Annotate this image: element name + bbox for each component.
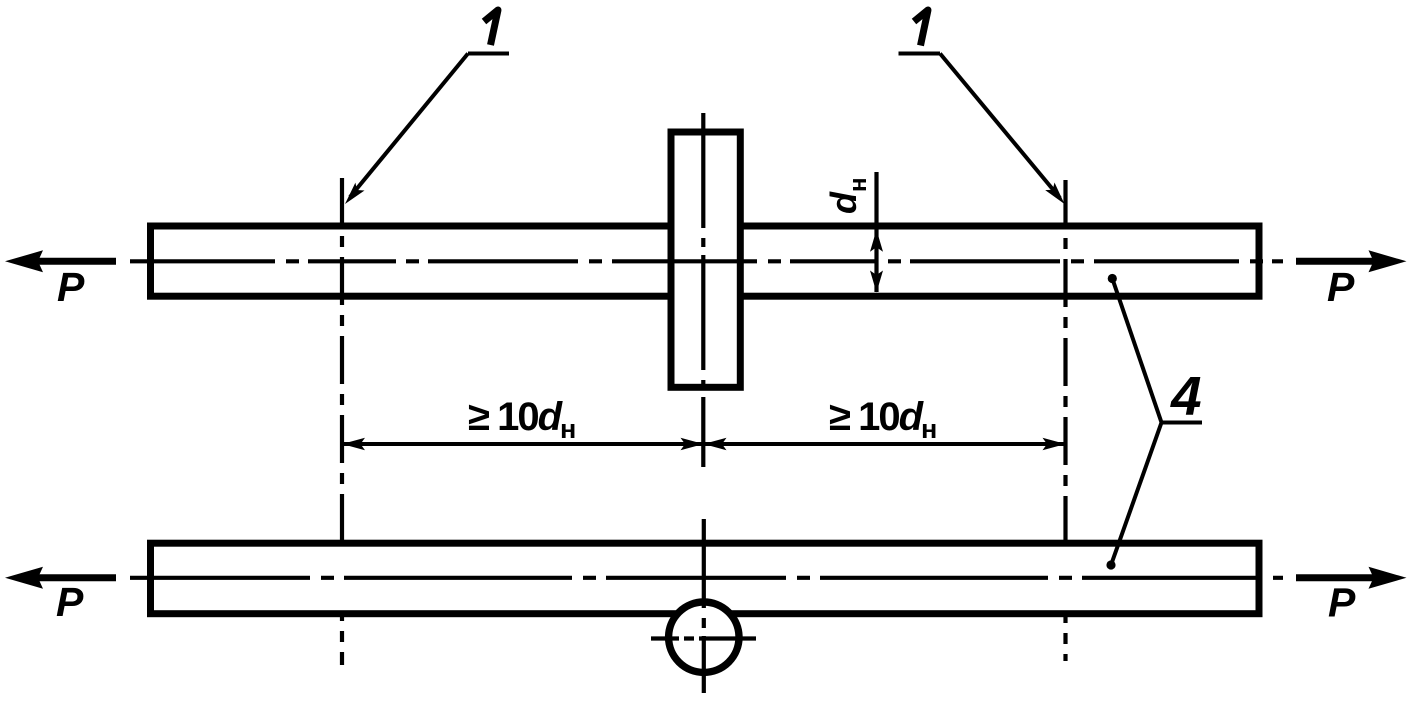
- dimension arrowhead (right end of right span): [1043, 438, 1066, 451]
- leader arrowhead of label 1 (left): [345, 183, 365, 204]
- top bar (specimen rod, side view): [151, 226, 1260, 296]
- bottom bar (specimen rod, plan view): [151, 543, 1260, 614]
- right section line (vertical dash-dot): [1063, 180, 1067, 661]
- leader arrowhead of label 1 (right): [1045, 183, 1064, 205]
- wire: right force arrow shaft (top): [1296, 258, 1375, 265]
- center axis of transverse plate (vertical dash-dot, top view): [701, 113, 705, 467]
- svg-text:P: P: [56, 579, 84, 625]
- dimension arrowhead (left end of right span): [704, 438, 727, 451]
- vertical centerline through circle: [702, 519, 706, 693]
- svg-text:P: P: [1328, 580, 1356, 626]
- leader line of label 4: lower leg: [1111, 423, 1162, 566]
- label 1 (right section mark): [914, 10, 928, 46]
- leader line of label 1 (right): diagonal: [940, 54, 1060, 199]
- label 1 (left section mark): [484, 10, 498, 45]
- centerline of top bar (horizontal dash-dot): [130, 259, 1283, 263]
- right force arrowhead (bottom): [1369, 567, 1407, 589]
- leader line of label 1 (right): underline: [899, 52, 941, 56]
- dimension line >=10d_n (right span): [704, 442, 1066, 446]
- leader line of label 4: upper leg: [1112, 279, 1161, 423]
- dimension line >=10d_n (left span): [342, 442, 704, 446]
- dimension arrowhead (left end of left span): [342, 438, 365, 451]
- right force arrowhead (top): [1369, 250, 1407, 272]
- leader line of label 1 (left): diagonal: [350, 54, 468, 198]
- dimension arrowhead (right end of left span): [681, 438, 704, 451]
- wire: left force arrow shaft (top): [36, 258, 116, 265]
- left force arrowhead (bottom): [5, 567, 43, 589]
- centerline of bottom bar (horizontal dash-dot): [130, 576, 1283, 580]
- svg-text:P: P: [57, 264, 85, 310]
- wire: right force arrow shaft (bottom): [1296, 574, 1375, 581]
- dimension arrowhead d_n down: [870, 271, 883, 293]
- horizontal centerline through circle: [651, 636, 756, 640]
- svg-text:≥ 10dн: ≥ 10dн: [468, 395, 575, 444]
- dimension line d_n (vertical): [874, 172, 878, 292]
- leader line of label 4: underline: [1162, 421, 1203, 425]
- transverse bar end (circle, plan view): [669, 602, 739, 672]
- left force arrowhead (top): [5, 250, 43, 272]
- wire: left force arrow shaft (bottom): [36, 574, 116, 581]
- node: weld point on top bar: [1108, 274, 1117, 283]
- svg-text:P: P: [1327, 264, 1355, 310]
- left section line (vertical dash-dot): [340, 178, 344, 665]
- transverse plate (welded bar, side view): [671, 132, 740, 387]
- svg-text:≥ 10dн: ≥ 10dн: [829, 395, 936, 444]
- node: weld point on bottom bar: [1106, 560, 1115, 569]
- leader line of label 1 (left): underline: [468, 52, 509, 56]
- svg-text:4: 4: [1170, 365, 1202, 427]
- dimension arrowhead d_n up: [870, 230, 883, 252]
